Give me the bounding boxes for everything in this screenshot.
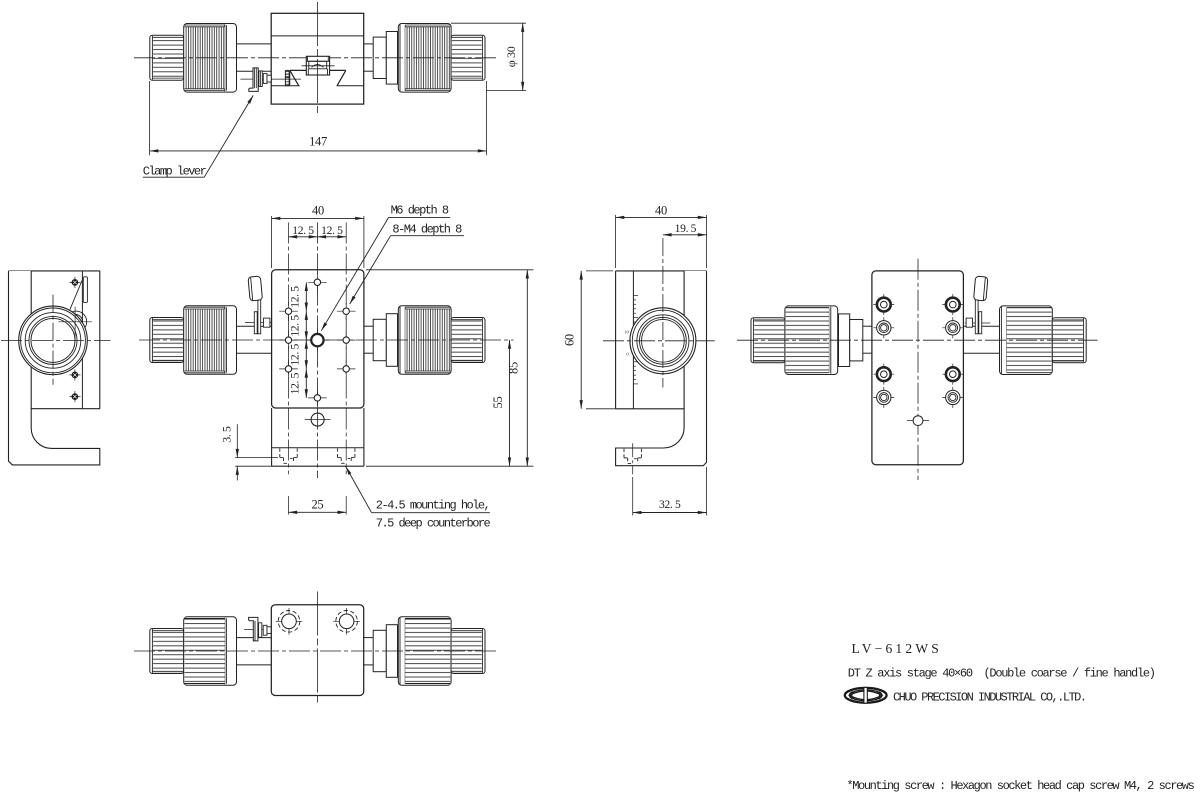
dimension 12.5 12.5 (front top) <box>289 224 347 237</box>
right side view: foot hole centerline <box>632 443 634 515</box>
rear view: clamp lever <box>966 276 988 334</box>
rear view: clamp screw tick <box>965 322 991 324</box>
svg-text:12. 5: 12. 5 <box>289 372 302 394</box>
company logo <box>845 687 887 703</box>
svg-text:M6 depth 8: M6 depth 8 <box>391 203 449 217</box>
rear view: left handle <box>751 306 863 375</box>
bottom view: mounting hole right <box>333 608 360 635</box>
svg-text:40: 40 <box>312 203 324 217</box>
top view: clamp lever <box>249 68 271 92</box>
svg-text:2-4.5 mounting hole,: 2-4.5 mounting hole, <box>376 499 489 513</box>
svg-text:12. 5: 12. 5 <box>321 224 343 237</box>
front view: mid block <box>272 408 364 466</box>
dimension 12.5 vertical stack <box>289 282 307 398</box>
rear view: through holes (double ring) <box>873 317 963 408</box>
bottom view: centerlines <box>134 592 497 705</box>
svg-text:40: 40 <box>655 203 667 217</box>
svg-text:85: 85 <box>507 362 521 374</box>
top view: right shaft <box>364 44 374 71</box>
dimension 40 (front) <box>272 203 364 268</box>
label M6 depth 8 with leader <box>321 203 450 330</box>
svg-text:60: 60 <box>563 334 577 346</box>
top view: clamp screw thread <box>285 70 289 85</box>
left side view: centerlines <box>1 295 111 385</box>
right side view: centerlines <box>603 238 715 388</box>
bottom view: mounting hole left <box>276 608 303 635</box>
top view: clamp screw axis line <box>240 78 301 80</box>
top view: left coarse/fine handle <box>150 24 237 93</box>
left side view: clamp boss outer circle <box>65 311 86 332</box>
bottom view: left handle <box>150 617 237 686</box>
dimension 40 (side view) <box>616 203 707 268</box>
front view: clamp screw axis tick <box>245 322 284 324</box>
svg-text:8-M4 depth 8: 8-M4 depth 8 <box>392 223 462 237</box>
svg-text:12. 5: 12. 5 <box>289 344 302 366</box>
top view: left dovetail cut <box>285 70 306 85</box>
left side view: socket screws <box>69 277 80 402</box>
label 2-4.5 mounting hole with leader <box>346 467 491 531</box>
rear view: left shaft <box>863 326 872 353</box>
svg-text:7.5 deep counterbore: 7.5 deep counterbore <box>376 517 491 531</box>
dimension 25 <box>289 497 347 512</box>
bottom view: right handle <box>373 617 485 686</box>
left side view: clamp lever (side) <box>68 277 88 329</box>
top view: right dovetail cut <box>330 70 346 85</box>
front view: clamp lever <box>248 276 270 334</box>
label 8-M4 depth 8 with leader <box>350 223 464 304</box>
clamp lever label and leader <box>143 95 253 178</box>
svg-text:55: 55 <box>491 397 505 409</box>
dimension phi30 <box>451 23 526 90</box>
dimension 3.5 <box>221 424 279 480</box>
svg-text:19. 5: 19. 5 <box>675 222 697 235</box>
dimension 55 <box>491 340 510 466</box>
front view: right shaft <box>364 326 373 353</box>
bottom view: clamp lever <box>249 617 272 641</box>
right side view: foot counterbore hidden lines <box>624 449 641 464</box>
front view: M6 center hole <box>305 328 329 352</box>
front view: hole column centerlines <box>289 223 347 515</box>
rear view: horizontal centerline <box>737 339 1098 341</box>
dimension 60 <box>563 271 616 409</box>
svg-text:10: 10 <box>624 330 629 335</box>
dimension 19.5 <box>663 222 707 235</box>
svg-text:12. 5: 12. 5 <box>289 286 302 308</box>
bottom view: clamp screw tick <box>244 628 273 630</box>
svg-text:LV−612WS: LV−612WS <box>852 641 942 656</box>
rear view: right shaft <box>963 326 999 353</box>
front view: horizontal centerline <box>139 339 514 341</box>
svg-text:CHUO PRECISION INDUSTRIAL CO,.: CHUO PRECISION INDUSTRIAL CO,.LTD. <box>893 690 1085 704</box>
right side view: plate face lines <box>616 271 685 409</box>
svg-text:12. 5: 12. 5 <box>289 315 302 337</box>
top view: right coarse/fine handle <box>373 24 485 93</box>
left side view: clamp boss ticks <box>58 307 92 342</box>
left side view: bracket outline <box>9 271 100 465</box>
svg-text:32. 5: 32. 5 <box>659 498 681 511</box>
front view: left handle <box>150 306 237 375</box>
top view: horizontal centerline <box>134 57 497 59</box>
dimension 147 <box>150 81 487 155</box>
svg-text:φ 30: φ 30 <box>504 46 518 67</box>
dimension 32.5 <box>633 467 707 515</box>
svg-text:Clamp lever: Clamp lever <box>143 164 207 178</box>
dimension 85 <box>366 270 534 466</box>
bottom view: right shaft <box>364 638 374 665</box>
top view: vertical centerline <box>316 2 318 114</box>
right side view: knob end-on circles <box>630 308 696 374</box>
rear view: vertical centerline <box>917 259 919 480</box>
top view: leadscrew nut block <box>302 56 335 75</box>
front view: top plate <box>272 270 364 408</box>
svg-text:DT Z axis stage 40×60 (Double: DT Z axis stage 40×60 (Double coarse / f… <box>848 666 1155 680</box>
front view: vertical centerline <box>316 223 318 479</box>
right side view: bracket outline <box>616 271 707 466</box>
left side view: knob end-on circles <box>19 306 88 375</box>
rear view: cap screw holes (thick ring) <box>873 294 963 385</box>
top view: left shaft <box>237 44 272 71</box>
svg-text:*Mounting screw : Hexagon sock: *Mounting screw : Hexagon socket head ca… <box>847 779 1195 793</box>
rear view: right handle <box>1000 306 1087 375</box>
right side view: vernier scale <box>624 296 638 384</box>
front view: left shaft <box>237 326 272 353</box>
svg-text:147: 147 <box>309 134 327 148</box>
rear view: bottom hole <box>907 416 929 426</box>
front view: counterbore hidden lines right <box>338 448 355 463</box>
svg-text:12. 5: 12. 5 <box>292 224 314 237</box>
svg-text:3. 5: 3. 5 <box>221 426 234 443</box>
rear view: base plate <box>872 271 964 465</box>
top view: stage body (plan) <box>271 13 364 104</box>
bottom view: body <box>271 605 363 696</box>
bottom view: left shaft <box>237 638 272 665</box>
svg-text:25: 25 <box>311 497 323 511</box>
left side view: plate face lines <box>31 271 100 409</box>
front view: counterbore hidden lines left <box>280 448 297 463</box>
front view: lock hole <box>305 413 331 426</box>
front view: right handle <box>373 306 485 375</box>
front view: 8 M4 holes <box>279 273 355 407</box>
